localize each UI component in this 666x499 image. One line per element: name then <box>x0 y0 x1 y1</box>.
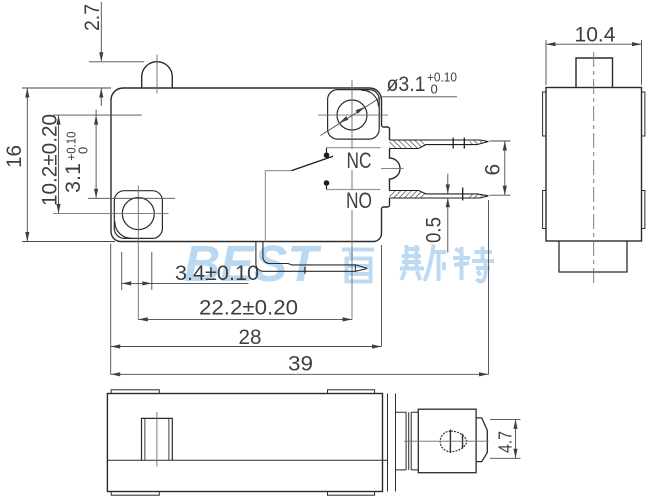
svg-text:10.4: 10.4 <box>575 24 616 47</box>
dimension 22.2 <box>138 318 352 320</box>
watermark BEST <box>184 235 322 292</box>
svg-text:NO: NO <box>346 188 372 213</box>
mounting boss bottom-left <box>114 191 162 239</box>
crosshair bottom hole <box>53 186 169 320</box>
dimension 3.1 left <box>88 110 175 199</box>
parting line <box>107 459 387 461</box>
dimension 2.7 <box>89 2 144 106</box>
mounting hole bottom-left <box>122 198 154 230</box>
NO contact dot <box>324 180 330 189</box>
dimension 10.2 <box>53 115 142 213</box>
side center line <box>593 52 595 285</box>
mounting hole top-right <box>337 100 367 130</box>
svg-text:0: 0 <box>76 147 91 154</box>
bottom body <box>107 394 382 492</box>
dimension 39 <box>111 200 489 375</box>
plunger button <box>142 62 173 88</box>
common terminal <box>256 242 368 274</box>
svg-text:ø3.1: ø3.1 <box>387 73 426 96</box>
svg-text:28: 28 <box>239 326 262 349</box>
watermark 百斯特 <box>342 245 494 282</box>
dimension dia 3.1 <box>321 97 458 136</box>
bottom cap lines <box>388 394 396 492</box>
side plunger <box>576 58 613 88</box>
svg-text:22.2±0.20: 22.2±0.20 <box>199 297 298 320</box>
bottom plunger center line <box>156 412 158 467</box>
svg-text:3.4±0.10: 3.4±0.10 <box>175 262 259 285</box>
faston blade end <box>476 418 487 462</box>
switch body outline <box>111 88 400 242</box>
svg-text:16: 16 <box>3 145 26 168</box>
dimension 4.7 <box>490 419 521 458</box>
svg-text:0.5: 0.5 <box>423 217 446 243</box>
side wall tabs <box>543 92 645 229</box>
svg-text:2.7: 2.7 <box>81 4 104 31</box>
svg-text:39: 39 <box>288 353 313 376</box>
dimension 0.5 <box>447 174 449 253</box>
terminal center line <box>404 440 489 442</box>
svg-text:0: 0 <box>431 82 438 97</box>
NO wire <box>327 189 381 191</box>
NO terminal <box>390 188 489 201</box>
NC wire <box>327 147 381 149</box>
NC contact dot <box>324 148 330 158</box>
dimension 3.4 <box>122 252 249 290</box>
dimension 28 <box>111 244 382 375</box>
bottom tabs <box>111 390 374 495</box>
svg-text:+0.10: +0.10 <box>64 132 79 161</box>
terminal shroud <box>418 409 476 473</box>
common anchor wire <box>265 171 291 242</box>
dimension 6 <box>490 141 511 195</box>
NC terminal <box>390 138 489 149</box>
svg-text:NC: NC <box>347 148 372 173</box>
bump center line <box>381 168 404 170</box>
plunger center line <box>156 55 158 94</box>
terminal step <box>396 412 419 470</box>
svg-text:3.1: 3.1 <box>62 163 85 193</box>
lever hole shape <box>440 430 467 453</box>
side body <box>546 88 642 242</box>
svg-text:10.2±0.20: 10.2±0.20 <box>39 114 62 206</box>
mounting boss top-right <box>328 90 380 140</box>
side bottom block <box>559 241 627 272</box>
svg-text:4.7: 4.7 <box>496 431 516 453</box>
crosshair top hole <box>318 80 388 320</box>
bottom plunger <box>142 418 173 460</box>
dimension 16 <box>22 88 115 242</box>
svg-text:6: 6 <box>482 164 505 176</box>
moving contact arm <box>292 156 334 170</box>
dimension 10.4 <box>546 40 642 85</box>
